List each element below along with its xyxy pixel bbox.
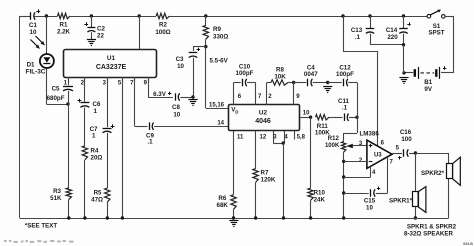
svg-text:U3: U3 — [374, 153, 382, 159]
svg-text:10: 10 — [173, 112, 180, 119]
svg-text:330Ω: 330Ω — [213, 33, 228, 40]
svg-text:C5: C5 — [52, 85, 60, 92]
svg-text:R12: R12 — [328, 136, 340, 142]
svg-text:R1: R1 — [60, 21, 68, 28]
svg-text:R4: R4 — [91, 148, 99, 155]
svg-text:.1: .1 — [355, 34, 361, 41]
svg-text:680pF: 680pF — [47, 95, 65, 102]
svg-text:R10: R10 — [314, 190, 326, 197]
svg-text:22: 22 — [97, 33, 104, 40]
svg-text:R9: R9 — [213, 26, 221, 33]
svg-text:*SEE TEXT: *SEE TEXT — [25, 222, 58, 229]
svg-text:R2: R2 — [159, 21, 167, 28]
svg-text:D1: D1 — [27, 61, 35, 68]
svg-text:100: 100 — [401, 136, 412, 143]
svg-text:20Ω: 20Ω — [91, 155, 103, 162]
svg-text:U2: U2 — [259, 110, 268, 117]
svg-text:LM386: LM386 — [360, 131, 380, 138]
svg-text:11: 11 — [237, 135, 244, 141]
svg-text:SPKR1*: SPKR1* — [389, 197, 413, 204]
svg-text:10: 10 — [30, 29, 37, 36]
svg-text:.1: .1 — [342, 105, 348, 112]
svg-text:SPKR2*: SPKR2* — [421, 170, 445, 177]
svg-text:5,8: 5,8 — [297, 135, 306, 141]
svg-text:R5: R5 — [94, 189, 102, 196]
svg-text:68K: 68K — [217, 202, 229, 209]
svg-text:D: D — [235, 109, 238, 114]
svg-text:C6: C6 — [93, 101, 101, 108]
svg-text:100pF: 100pF — [336, 71, 354, 78]
svg-text:8-32Ω SPEAKER: 8-32Ω SPEAKER — [404, 230, 454, 237]
svg-text:C15: C15 — [364, 198, 376, 205]
svg-text:R7: R7 — [261, 170, 269, 177]
svg-text:10: 10 — [177, 63, 184, 70]
svg-text:100K: 100K — [325, 143, 340, 149]
svg-text:C2: C2 — [97, 26, 105, 33]
svg-text:SPST: SPST — [428, 30, 444, 37]
svg-text:51K: 51K — [50, 195, 62, 202]
svg-text:10: 10 — [366, 205, 373, 212]
svg-text:CA3237E: CA3237E — [96, 64, 127, 71]
svg-text:5.5-6V: 5.5-6V — [210, 58, 229, 65]
svg-text:12: 12 — [260, 135, 267, 141]
svg-text:9V: 9V — [424, 86, 432, 93]
svg-text:10: 10 — [303, 110, 310, 116]
svg-text:1: 1 — [92, 133, 96, 140]
svg-text:.1: .1 — [147, 138, 153, 145]
svg-text:1: 1 — [94, 108, 98, 115]
svg-text:2.2K: 2.2K — [57, 28, 71, 35]
svg-text:220: 220 — [387, 34, 398, 41]
svg-text:934-B: 934-B — [463, 242, 473, 246]
svg-text:SPKR1 & SPKR2: SPKR1 & SPKR2 — [407, 223, 457, 230]
svg-text:24K: 24K — [314, 197, 326, 204]
svg-text:C16: C16 — [400, 129, 412, 136]
svg-text:C8: C8 — [172, 104, 180, 111]
svg-text:100Ω: 100Ω — [155, 29, 170, 36]
svg-text:47Ω: 47Ω — [91, 197, 103, 204]
svg-text:6.3V: 6.3V — [153, 91, 167, 98]
svg-text:FIL-3C: FIL-3C — [26, 68, 46, 75]
svg-text:100pF: 100pF — [236, 70, 254, 77]
svg-text:15,16: 15,16 — [209, 103, 225, 109]
svg-text:10K: 10K — [274, 73, 286, 80]
svg-text:14: 14 — [217, 120, 224, 126]
svg-text:0047: 0047 — [304, 71, 318, 78]
svg-text:C1: C1 — [29, 22, 37, 29]
svg-text:120K: 120K — [261, 177, 276, 184]
svg-text:4046: 4046 — [255, 118, 271, 125]
svg-text:U1: U1 — [107, 55, 116, 62]
